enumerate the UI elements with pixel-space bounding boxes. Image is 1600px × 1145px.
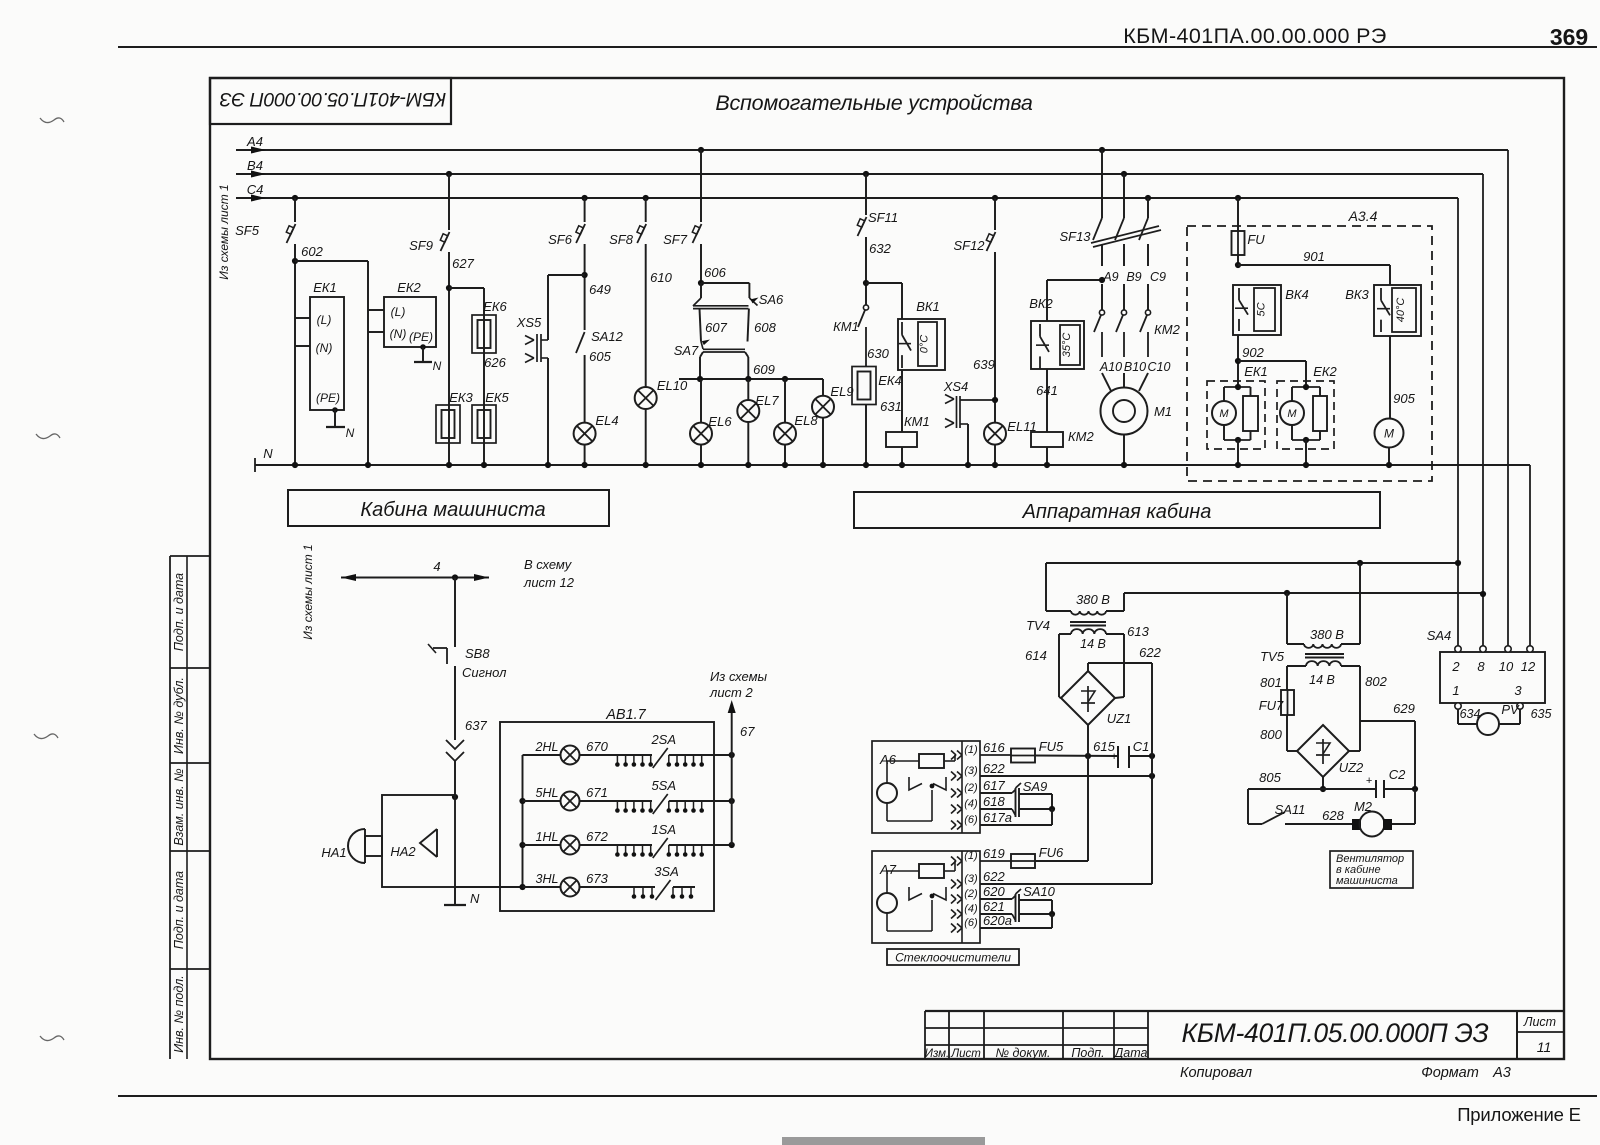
- svg-text:1: 1: [1452, 683, 1459, 698]
- svg-text:XS4: XS4: [943, 379, 969, 394]
- svg-text:617: 617: [983, 778, 1005, 793]
- svg-text:2SA: 2SA: [650, 732, 676, 747]
- svg-text:SA4: SA4: [1427, 628, 1452, 643]
- svg-text:380 В: 380 В: [1076, 592, 1110, 607]
- svg-text:С4: С4: [247, 182, 264, 197]
- svg-text:Дата: Дата: [1113, 1046, 1148, 1060]
- svg-text:902: 902: [1242, 345, 1264, 360]
- svg-text:0°С: 0°С: [919, 335, 931, 354]
- svg-text:КБМ-401ПА.00.00.000 РЭ: КБМ-401ПА.00.00.000 РЭ: [1123, 24, 1387, 48]
- svg-text:FU7: FU7: [1259, 698, 1284, 713]
- svg-text:КМ2: КМ2: [1068, 429, 1094, 444]
- svg-text:(6): (6): [964, 814, 978, 826]
- svg-text:TV4: TV4: [1026, 618, 1050, 633]
- svg-text:637: 637: [465, 718, 487, 733]
- svg-text:4: 4: [433, 559, 440, 574]
- svg-text:(3): (3): [964, 873, 978, 885]
- svg-text:А6: А6: [879, 752, 897, 767]
- svg-text:В4: В4: [247, 158, 263, 173]
- svg-text:14 В: 14 В: [1309, 673, 1335, 687]
- svg-text:Формат: Формат: [1421, 1065, 1479, 1081]
- svg-text:EL4: EL4: [595, 413, 618, 428]
- svg-text:671: 671: [586, 785, 608, 800]
- svg-text:Сигнол: Сигнол: [462, 665, 507, 680]
- svg-text:(N): (N): [316, 341, 333, 355]
- svg-text:АВ1.7: АВ1.7: [605, 707, 646, 723]
- svg-text:UZ1: UZ1: [1107, 711, 1132, 726]
- svg-text:КМ1: КМ1: [833, 319, 859, 334]
- svg-text:Вспомогательные устройства: Вспомогательные устройства: [715, 91, 1033, 115]
- svg-text:628: 628: [1322, 808, 1344, 823]
- svg-text:SA12: SA12: [591, 329, 624, 344]
- svg-text:622: 622: [1139, 645, 1161, 660]
- svg-text:FU5: FU5: [1039, 739, 1064, 754]
- svg-text:С10: С10: [1148, 360, 1171, 374]
- svg-text:С1: С1: [1133, 739, 1150, 754]
- svg-text:619: 619: [983, 846, 1005, 861]
- svg-text:Лист: Лист: [950, 1048, 981, 1060]
- svg-text:SA11: SA11: [1275, 802, 1306, 817]
- svg-text:ЕК3: ЕК3: [449, 390, 473, 405]
- svg-text:М: М: [1384, 426, 1394, 440]
- svg-text:лист 2: лист 2: [709, 685, 754, 700]
- svg-text:(L): (L): [317, 313, 332, 327]
- svg-text:613: 613: [1127, 624, 1149, 639]
- svg-text:607: 607: [705, 320, 727, 335]
- svg-text:А3: А3: [1492, 1065, 1511, 1081]
- svg-text:КМ1: КМ1: [904, 414, 930, 429]
- svg-text:EL6: EL6: [708, 414, 732, 429]
- svg-text:3HL: 3HL: [536, 872, 559, 886]
- svg-text:КБМ-401П.05.00.000П ЭЗ: КБМ-401П.05.00.000П ЭЗ: [1181, 1018, 1488, 1048]
- svg-text:UZ2: UZ2: [1339, 760, 1364, 775]
- svg-text:Из схемы лист 1: Из схемы лист 1: [217, 184, 231, 279]
- svg-text:ВК3: ВК3: [1345, 287, 1369, 302]
- svg-text:5SA: 5SA: [651, 778, 676, 793]
- svg-text:621: 621: [983, 899, 1005, 914]
- svg-text:SF7: SF7: [663, 232, 688, 247]
- svg-text:ВК4: ВК4: [1285, 287, 1309, 302]
- svg-text:А4: А4: [246, 134, 263, 149]
- svg-text:SF6: SF6: [548, 232, 573, 247]
- svg-text:+: +: [1111, 751, 1118, 763]
- svg-text:626: 626: [484, 355, 506, 370]
- svg-text:805: 805: [1259, 770, 1281, 785]
- svg-text:М1: М1: [1154, 404, 1172, 419]
- svg-text:800: 800: [1260, 727, 1282, 742]
- svg-text:35°С: 35°С: [1061, 333, 1073, 358]
- svg-text:SA10: SA10: [1023, 884, 1056, 899]
- svg-text:14 В: 14 В: [1080, 637, 1106, 651]
- svg-text:N: N: [433, 359, 442, 373]
- svg-text:N: N: [470, 891, 480, 906]
- svg-text:SB8: SB8: [465, 646, 490, 661]
- svg-text:ЕК5: ЕК5: [485, 390, 509, 405]
- svg-text:ВК1: ВК1: [916, 299, 940, 314]
- svg-text:М: М: [1219, 408, 1229, 420]
- svg-text:SA7: SA7: [674, 343, 699, 358]
- svg-text:А7: А7: [879, 862, 897, 877]
- svg-text:606: 606: [704, 265, 726, 280]
- svg-text:ЕК1: ЕК1: [313, 280, 337, 295]
- svg-text:(4): (4): [964, 798, 978, 810]
- svg-text:EL10: EL10: [657, 378, 688, 393]
- svg-text:10: 10: [1499, 659, 1514, 674]
- svg-text:EL7: EL7: [755, 393, 779, 408]
- svg-text:618: 618: [983, 794, 1005, 809]
- svg-text:602: 602: [301, 244, 323, 259]
- svg-text:12: 12: [1521, 659, 1536, 674]
- svg-text:Подп.: Подп.: [1071, 1046, 1104, 1060]
- svg-text:С2: С2: [1389, 767, 1406, 782]
- svg-text:КМ2: КМ2: [1154, 322, 1180, 337]
- svg-text:672: 672: [586, 829, 608, 844]
- svg-text:М: М: [1287, 408, 1297, 420]
- svg-text:3SA: 3SA: [654, 864, 679, 879]
- svg-text:PV: PV: [1501, 702, 1520, 717]
- svg-text:622: 622: [983, 869, 1005, 884]
- svg-text:608: 608: [754, 320, 776, 335]
- svg-text:(6): (6): [964, 917, 978, 929]
- svg-text:3: 3: [1514, 683, 1522, 698]
- svg-text:НА2: НА2: [390, 844, 416, 859]
- svg-text:SF12: SF12: [953, 238, 985, 253]
- svg-text:(PE): (PE): [316, 391, 340, 405]
- svg-text:801: 801: [1260, 675, 1282, 690]
- svg-text:лист 12: лист 12: [523, 575, 575, 590]
- svg-text:Из схемы лист 1: Из схемы лист 1: [301, 544, 315, 639]
- svg-text:380 В: 380 В: [1310, 627, 1344, 642]
- svg-text:Инв. № подл.: Инв. № подл.: [172, 975, 186, 1053]
- svg-text:8: 8: [1477, 659, 1485, 674]
- svg-text:(N): (N): [390, 327, 407, 341]
- svg-text:639: 639: [973, 357, 995, 372]
- svg-text:627: 627: [452, 256, 474, 271]
- svg-text:609: 609: [753, 362, 775, 377]
- svg-text:(PE): (PE): [409, 330, 433, 344]
- svg-text:Кабина машиниста: Кабина машиниста: [360, 499, 545, 521]
- svg-text:SF8: SF8: [609, 232, 634, 247]
- svg-text:EL9: EL9: [830, 384, 853, 399]
- svg-text:Взам. инв. №: Взам. инв. №: [172, 768, 186, 846]
- svg-text:673: 673: [586, 871, 608, 886]
- svg-text:Стеклоочистители: Стеклоочистители: [895, 951, 1011, 965]
- svg-text:TV5: TV5: [1260, 649, 1285, 664]
- svg-text:N: N: [263, 446, 273, 461]
- svg-text:1HL: 1HL: [536, 830, 559, 844]
- svg-text:2HL: 2HL: [535, 740, 559, 754]
- svg-text:ЕК4: ЕК4: [878, 373, 902, 388]
- svg-text:А9: А9: [1102, 270, 1118, 284]
- svg-text:+: +: [1366, 775, 1373, 787]
- svg-text:(2): (2): [964, 888, 978, 900]
- svg-text:11: 11: [1537, 1039, 1552, 1055]
- svg-text:630: 630: [867, 346, 889, 361]
- svg-text:1SA: 1SA: [651, 822, 676, 837]
- svg-text:В10: В10: [1124, 360, 1146, 374]
- svg-text:629: 629: [1393, 701, 1415, 716]
- svg-text:SF11: SF11: [868, 210, 898, 225]
- svg-text:ЕК2: ЕК2: [397, 280, 421, 295]
- svg-text:Подп. и дата: Подп. и дата: [172, 573, 186, 651]
- svg-text:622: 622: [983, 761, 1005, 776]
- svg-text:(1): (1): [964, 744, 978, 756]
- svg-text:А3.4: А3.4: [1348, 208, 1378, 224]
- svg-text:Лист: Лист: [1523, 1015, 1556, 1029]
- svg-text:67: 67: [740, 724, 755, 739]
- svg-text:641: 641: [1036, 383, 1058, 398]
- svg-text:ЕК2: ЕК2: [1313, 364, 1337, 379]
- svg-text:649: 649: [589, 282, 611, 297]
- svg-text:617а: 617а: [983, 810, 1012, 825]
- svg-text:SF13: SF13: [1059, 229, 1091, 244]
- svg-text:А10: А10: [1099, 360, 1122, 374]
- svg-text:XS5: XS5: [516, 315, 542, 330]
- svg-text:ВК2: ВК2: [1029, 296, 1053, 311]
- svg-text:5HL: 5HL: [536, 786, 559, 800]
- svg-text:(1): (1): [964, 850, 978, 862]
- svg-text:SA6: SA6: [759, 292, 784, 307]
- svg-text:машиниста: машиниста: [1336, 875, 1398, 887]
- svg-text:(L): (L): [391, 305, 406, 319]
- svg-text:Из схемы: Из схемы: [710, 669, 768, 684]
- svg-text:(4): (4): [964, 903, 978, 915]
- svg-text:620: 620: [983, 884, 1005, 899]
- svg-text:901: 901: [1303, 249, 1325, 264]
- svg-text:905: 905: [1393, 391, 1415, 406]
- svg-text:В9: В9: [1126, 270, 1141, 284]
- svg-text:№ докум.: № докум.: [995, 1046, 1050, 1060]
- svg-text:В схему: В схему: [524, 557, 573, 572]
- svg-text:С9: С9: [1150, 270, 1166, 284]
- svg-text:N: N: [346, 426, 355, 440]
- svg-text:2: 2: [1451, 659, 1460, 674]
- svg-text:Инв. № дубл.: Инв. № дубл.: [172, 677, 186, 754]
- svg-text:605: 605: [589, 349, 611, 364]
- svg-text:SF9: SF9: [409, 238, 433, 253]
- svg-text:Приложение Е: Приложение Е: [1457, 1104, 1581, 1125]
- svg-text:5С: 5С: [1256, 302, 1268, 316]
- svg-text:670: 670: [586, 739, 608, 754]
- svg-text:610: 610: [650, 270, 672, 285]
- svg-text:631: 631: [880, 399, 902, 414]
- svg-text:FU: FU: [1247, 232, 1265, 247]
- svg-text:635: 635: [1531, 707, 1552, 721]
- svg-text:SF5: SF5: [235, 223, 260, 238]
- svg-text:620а: 620а: [983, 913, 1012, 928]
- svg-text:ЕК1: ЕК1: [1244, 364, 1268, 379]
- svg-text:614: 614: [1025, 648, 1047, 663]
- svg-text:634: 634: [1460, 707, 1481, 721]
- svg-text:632: 632: [869, 241, 891, 256]
- svg-text:НА1: НА1: [321, 845, 346, 860]
- svg-text:Подп. и дата: Подп. и дата: [172, 871, 186, 949]
- svg-text:616: 616: [983, 740, 1005, 755]
- svg-text:FU6: FU6: [1039, 845, 1064, 860]
- svg-text:(3): (3): [964, 765, 978, 777]
- svg-text:40°С: 40°С: [1395, 298, 1407, 323]
- svg-text:М2: М2: [1354, 799, 1373, 814]
- svg-text:Аппаратная кабина: Аппаратная кабина: [1022, 501, 1212, 523]
- svg-text:802: 802: [1365, 674, 1387, 689]
- svg-text:КБМ-401П.05.00.000П ЭЗ: КБМ-401П.05.00.000П ЭЗ: [220, 88, 447, 110]
- svg-text:ЕК6: ЕК6: [483, 299, 507, 314]
- svg-text:Изм.: Изм.: [925, 1048, 950, 1060]
- svg-text:SA9: SA9: [1023, 779, 1048, 794]
- svg-text:(2): (2): [964, 782, 978, 794]
- svg-text:Копировал: Копировал: [1180, 1065, 1252, 1081]
